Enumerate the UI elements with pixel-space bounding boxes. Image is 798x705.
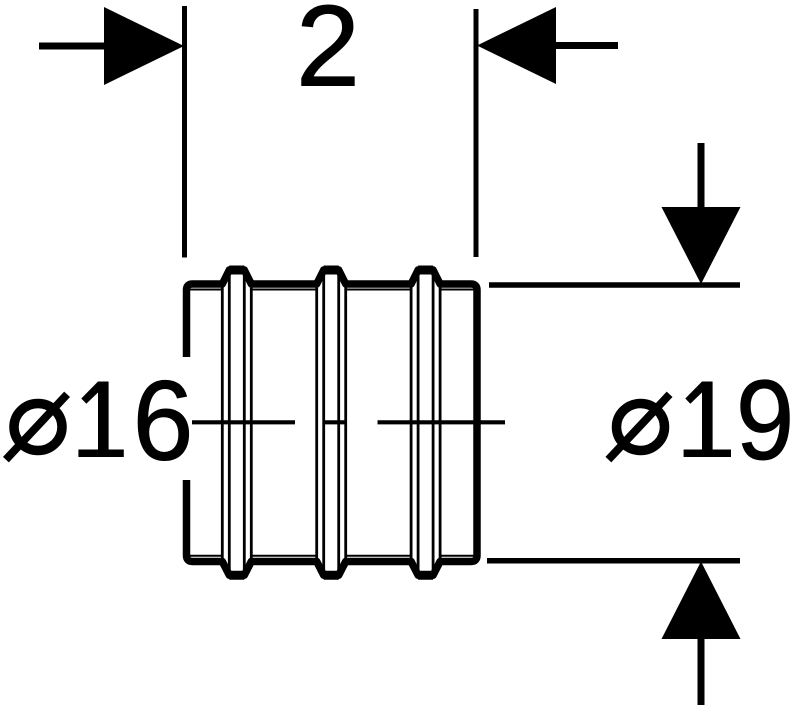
svg-text:6: 6 — [133, 357, 194, 484]
label diameter 19: slash of diameter symbol — [608, 394, 669, 459]
leader line of top arrow for diameter 19 — [698, 143, 705, 209]
inner edge thin line top — [190, 289, 474, 291]
rib 3 vertical edge lines — [411, 272, 440, 573]
extension line left (top) — [182, 6, 187, 258]
arrowhead top (points down) for diameter 19 — [662, 207, 741, 284]
label diameter 19: digit 1 (with foot serif) — [684, 382, 731, 458]
arrowhead bottom (points up) for diameter 19 — [662, 562, 741, 640]
dimension line left of width-2 callout — [39, 43, 106, 50]
dimension line right of width-2 callout — [553, 42, 618, 49]
extension line top for diameter 19 — [489, 282, 740, 288]
extension line right (top) — [474, 9, 479, 257]
centerline (dash-dot) — [192, 420, 505, 424]
label diameter 16: digit 1 (with foot serif) — [78, 382, 123, 458]
extension line bottom for diameter 19 — [487, 558, 740, 564]
leader line of bottom arrow for diameter 19 — [698, 639, 705, 705]
rib cap thickening lines — [229, 270, 433, 575]
rib 2 vertical edge lines — [317, 272, 346, 573]
label diameter 16: slash of diameter symbol — [6, 394, 67, 459]
arrowhead left (points right at extension line) — [104, 7, 184, 85]
svg-text:2: 2 — [296, 0, 360, 111]
body outline of sleeve with three ribs (left edge broken for bore dimension) — [187, 270, 478, 575]
label diameter 19: o-ring of diameter symbol — [617, 404, 665, 451]
label diameter 16: o-ring of diameter symbol — [14, 404, 62, 451]
rib 1 vertical edge lines — [222, 272, 251, 573]
inner edge thin line bottom — [190, 555, 474, 557]
arrowhead right (points left at extension line) — [477, 7, 556, 84]
svg-text:9: 9 — [736, 357, 794, 484]
